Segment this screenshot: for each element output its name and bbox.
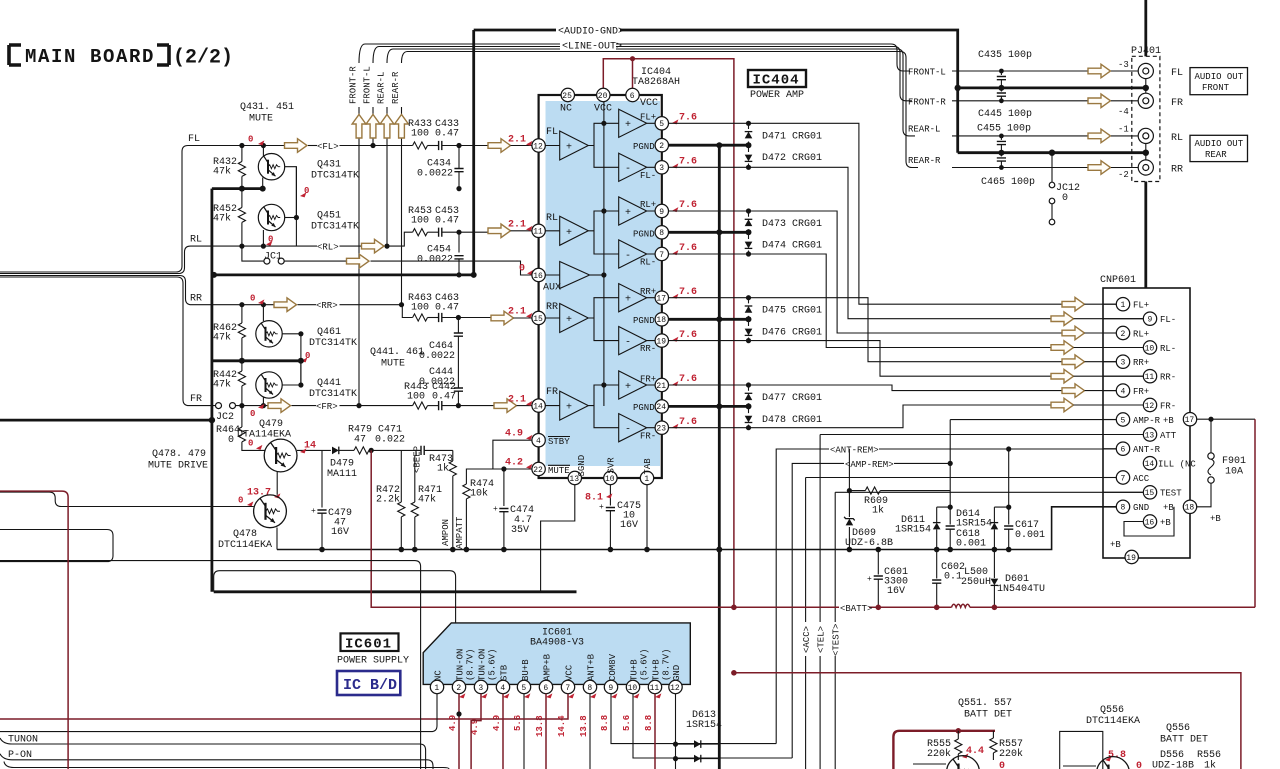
pin CNP 8 GND: [1116, 500, 1129, 513]
wire RL row: [190, 232, 413, 249]
amplifier channel RR: [539, 284, 657, 355]
node ANT-REM: [776, 446, 1116, 744]
svg-text:MA111: MA111: [327, 469, 357, 480]
svg-text:3: 3: [478, 684, 483, 693]
diode D475: [745, 295, 822, 319]
svg-text:RR: RR: [546, 302, 558, 313]
transistor Q431: [258, 146, 359, 219]
pin CNP 7 ACC: [1116, 471, 1129, 484]
transistor Q451: [258, 204, 359, 246]
svg-text:220k: 220k: [927, 748, 951, 760]
pin IC601 6: [539, 680, 552, 693]
pin IC601 5: [517, 680, 530, 693]
svg-text:ANT-R: ANT-R: [1133, 445, 1161, 455]
svg-text:Q431. 451: Q431. 451: [240, 102, 294, 113]
svg-text:5.6: 5.6: [622, 715, 632, 731]
red 0 FR: [258, 404, 264, 409]
red 0 Q441: [301, 357, 307, 362]
svg-text:6: 6: [1121, 446, 1126, 455]
svg-text:GND: GND: [672, 665, 682, 681]
ground frame thick: [0, 417, 577, 592]
node REAR-L vertical: [377, 72, 388, 247]
svg-text:7: 7: [565, 684, 570, 693]
amplifier channel RL: [539, 197, 657, 268]
svg-text:<LINE-OUT>: <LINE-OUT>: [562, 42, 622, 53]
svg-text:23: 23: [656, 425, 666, 434]
red 2.1 pin15: [526, 313, 532, 318]
svg-text:RR: RR: [190, 294, 202, 305]
svg-text:2: 2: [456, 684, 461, 693]
svg-text:15: 15: [533, 315, 543, 324]
wire pin1 TAB: [646, 485, 648, 550]
wire maroon left rail: [0, 491, 68, 769]
svg-text:4.9: 4.9: [492, 715, 502, 731]
svg-text:FRONT: FRONT: [1202, 83, 1230, 93]
svg-text:IC B/D: IC B/D: [343, 677, 397, 694]
pin CNP 4: [1116, 384, 1129, 397]
svg-text:17: 17: [1185, 416, 1195, 425]
svg-text:1: 1: [1121, 301, 1126, 310]
capacitor C471: [375, 425, 453, 456]
svg-text:+: +: [493, 505, 498, 514]
svg-text:7.6: 7.6: [679, 157, 697, 168]
svg-text:VCC: VCC: [640, 98, 658, 109]
svg-text:BU+B: BU+B: [521, 659, 531, 681]
svg-text:5: 5: [1121, 416, 1126, 425]
red 0 Q431: [300, 192, 306, 197]
wire AMP-R: [950, 420, 1116, 464]
pin 16: [532, 268, 545, 281]
resistor R471: [411, 456, 442, 550]
svg-text:TUN-ON: TUN-ON: [478, 649, 488, 681]
ground bus upper thick: [212, 178, 266, 192]
red 0 Q479: [256, 445, 262, 450]
svg-text:RL: RL: [1171, 133, 1183, 144]
svg-text:RL: RL: [190, 235, 202, 246]
svg-text:IC404: IC404: [753, 73, 800, 89]
arrow up REAR-L: [380, 115, 394, 139]
wire FL row: [188, 134, 413, 148]
svg-text:100: 100: [411, 129, 429, 140]
svg-text:7.6: 7.6: [679, 374, 697, 385]
wire LINE-OUT net / front-rear packed lines: [359, 37, 916, 168]
pin CNP 11: [1143, 370, 1156, 383]
svg-text:7.6: 7.6: [679, 287, 697, 298]
node FRONT-R vertical: [349, 66, 360, 406]
svg-text:D471 CRG01: D471 CRG01: [762, 132, 822, 143]
svg-text:14: 14: [1145, 460, 1155, 469]
svg-text:STBY: STBY: [548, 437, 570, 447]
svg-text:BA4908-V3: BA4908-V3: [530, 638, 584, 649]
wire PGND thick net: [669, 142, 752, 769]
svg-text:+: +: [625, 120, 631, 131]
jack RL: [1138, 128, 1183, 152]
svg-text:16V: 16V: [331, 527, 349, 538]
svg-text:13.7: 13.7: [247, 488, 271, 499]
pin IC601 10: [626, 680, 639, 693]
capacitor C465: [981, 153, 1035, 188]
svg-text:0.47: 0.47: [435, 216, 459, 227]
arrow FL: [285, 139, 308, 153]
node BEEP: [413, 446, 423, 473]
arrow FR: [268, 399, 291, 413]
svg-text:1SR154: 1SR154: [895, 525, 931, 536]
svg-text:FL: FL: [1171, 68, 1183, 79]
svg-text:POWER AMP: POWER AMP: [750, 90, 804, 101]
svg-text:35V: 35V: [511, 525, 529, 536]
pin CNP 10: [1143, 341, 1156, 354]
svg-text:RL-: RL-: [640, 258, 656, 268]
capacitor C434: [417, 146, 464, 192]
node AMP-REM: [792, 460, 953, 758]
svg-text:5: 5: [659, 120, 664, 129]
capacitor C435: [978, 50, 1032, 91]
svg-text:+: +: [625, 295, 631, 306]
transistor Q556: [1063, 757, 1129, 769]
arrow PJ FL: [1088, 64, 1111, 78]
red 2.1 pin11: [526, 226, 532, 231]
svg-text:0: 0: [999, 761, 1005, 769]
svg-text:6: 6: [630, 92, 635, 101]
svg-text:TUN-ON: TUN-ON: [456, 649, 466, 681]
wire +B to BATT maroon: [1254, 419, 1256, 607]
svg-text:REAR-R: REAR-R: [391, 71, 401, 104]
resistor R463: [408, 293, 439, 321]
diode D476: [745, 319, 822, 343]
svg-text:<FR>: <FR>: [316, 402, 338, 412]
svg-text:TA8268AH: TA8268AH: [632, 77, 680, 88]
svg-text:DTC114EKA: DTC114EKA: [218, 540, 272, 551]
svg-text:47k: 47k: [213, 166, 231, 178]
svg-text:2.1: 2.1: [508, 135, 526, 146]
wire RR+ to CNP3: [669, 298, 1063, 362]
resistor R479: [348, 425, 421, 455]
pin 25: [561, 88, 574, 101]
svg-text:220k: 220k: [999, 748, 1023, 760]
svg-text:RL-: RL-: [1160, 344, 1176, 354]
svg-text:CNP601: CNP601: [1100, 275, 1136, 286]
arrow FL to pin12: [488, 139, 511, 153]
pin CNP 5 AMP-R: [1116, 413, 1129, 426]
svg-text:8: 8: [1121, 504, 1126, 513]
wire Q-collector vertical: [295, 167, 297, 246]
resistor R555: [927, 731, 962, 760]
svg-text:19: 19: [656, 337, 666, 346]
pin IC601 1: [430, 680, 443, 693]
svg-text:REAR-L: REAR-L: [377, 72, 387, 104]
capacitor C618: [946, 463, 992, 552]
arrow CNP3: [1062, 355, 1085, 369]
title MAIN BOARD (2/2): [9, 45, 233, 70]
svg-text:AUDIO OUT: AUDIO OUT: [1195, 72, 1244, 82]
svg-text:(8.7V): (8.7V): [466, 649, 476, 681]
resistor R474: [463, 466, 532, 549]
svg-text:16: 16: [1145, 518, 1155, 527]
wire FR row: [190, 394, 413, 408]
pin IC601 9: [604, 680, 617, 693]
svg-text:Q478: Q478: [233, 529, 257, 540]
svg-text:DTC314TK: DTC314TK: [311, 171, 359, 182]
jumper JC2: [216, 403, 236, 423]
svg-text:DTC314TK: DTC314TK: [311, 222, 359, 233]
svg-text:7.6: 7.6: [679, 417, 697, 428]
svg-text:12: 12: [1145, 402, 1155, 411]
jack RR: [1138, 153, 1183, 176]
svg-text:NC: NC: [434, 670, 444, 681]
arrow PJ RL: [1088, 129, 1111, 143]
svg-text:24: 24: [656, 403, 666, 412]
svg-text:15: 15: [1145, 489, 1155, 498]
pin CNP 2: [1116, 326, 1129, 339]
svg-text:0.47: 0.47: [435, 303, 459, 314]
pin CNP 15 TEST: [1143, 486, 1156, 499]
svg-text:+B: +B: [1210, 514, 1221, 524]
arrow CNP4: [1062, 384, 1085, 398]
svg-text:D479: D479: [330, 459, 354, 470]
capacitor C442: [432, 382, 494, 410]
svg-text:<TEST>: <TEST>: [832, 624, 842, 656]
svg-text:PGND: PGND: [633, 403, 655, 413]
svg-text:10: 10: [605, 475, 615, 484]
red 7.6 values right pins: [672, 113, 697, 429]
svg-text:FL-: FL-: [1160, 315, 1176, 325]
pin IC601 8: [583, 680, 596, 693]
svg-text:+: +: [867, 575, 872, 584]
svg-text:0: 0: [1136, 761, 1142, 769]
red 14 Q479: [300, 448, 306, 453]
resistor R453: [408, 206, 439, 236]
svg-text:ATT: ATT: [1160, 431, 1177, 441]
svg-text:FR-: FR-: [1160, 401, 1176, 411]
svg-text:4.4: 4.4: [966, 746, 984, 757]
pin 24: [655, 400, 668, 413]
arrow CNP10: [1051, 341, 1074, 355]
svg-text:1SR154: 1SR154: [686, 720, 722, 731]
wire RL- to CNP10: [669, 254, 1052, 348]
svg-text:0.022: 0.022: [375, 435, 405, 446]
svg-text:AMP+B: AMP+B: [543, 653, 553, 681]
resistor R464: [216, 406, 265, 451]
arrow CNP9: [1051, 312, 1074, 326]
svg-text:2.1: 2.1: [508, 220, 526, 231]
pin 5: [655, 117, 668, 130]
svg-text:+B: +B: [1160, 518, 1171, 528]
arrow RR: [274, 298, 297, 312]
capacitor C453: [435, 206, 488, 253]
wire Q556 box: [1060, 731, 1103, 769]
svg-text:<BATT>: <BATT>: [840, 604, 872, 614]
node AMPON AMPATT: [441, 516, 465, 549]
svg-text:FRONT-R: FRONT-R: [349, 66, 359, 104]
svg-text:ACC: ACC: [1133, 474, 1150, 484]
pin 6: [626, 88, 639, 101]
arrow RL to pin11: [488, 224, 511, 238]
wire maroon lower rail: [731, 670, 1241, 769]
svg-text:47k: 47k: [418, 494, 436, 506]
battery detect maroon frame: [893, 728, 995, 769]
svg-text:3: 3: [659, 164, 664, 173]
ground bus RR thick: [212, 358, 304, 385]
svg-text:<AMP-REM>: <AMP-REM>: [845, 460, 894, 470]
diode D474: [745, 232, 822, 256]
svg-text:D474 CRG01: D474 CRG01: [762, 241, 822, 252]
svg-text:1: 1: [434, 684, 439, 693]
wire FRONT-L row: [908, 60, 1129, 78]
svg-text:0: 0: [228, 435, 234, 446]
svg-text:F901: F901: [1222, 456, 1246, 467]
svg-text:16V: 16V: [620, 520, 638, 531]
svg-text:RL+: RL+: [640, 200, 656, 210]
svg-text:<ANT-REM>: <ANT-REM>: [830, 446, 879, 456]
capacitor C464: [419, 318, 463, 363]
svg-text:C435 100p: C435 100p: [978, 50, 1032, 61]
svg-text:C445 100p: C445 100p: [978, 109, 1032, 120]
svg-text:5.6: 5.6: [513, 715, 523, 731]
wire FR+ to CNP4: [669, 385, 1063, 391]
arrow PJ FR: [1088, 94, 1111, 108]
svg-text:TEST: TEST: [1160, 489, 1182, 499]
svg-text:TAB: TAB: [643, 458, 653, 475]
svg-text:<RR>: <RR>: [316, 301, 338, 311]
red 4.9 pin4: [526, 435, 532, 440]
pin 12: [532, 139, 545, 152]
svg-text:47k: 47k: [213, 332, 231, 344]
capacitor C454: [417, 245, 464, 278]
svg-text:DTC314TK: DTC314TK: [309, 338, 357, 349]
svg-text:9: 9: [659, 208, 664, 217]
svg-text:0.0022: 0.0022: [417, 255, 453, 266]
wire FRONT-R row: [908, 97, 1129, 117]
pin CNP 12: [1143, 398, 1156, 411]
arrow up FRONT-L: [366, 115, 380, 139]
amplifier channel FR: [539, 371, 657, 442]
svg-text:PGND: PGND: [633, 229, 655, 239]
svg-text:REAR-R: REAR-R: [908, 156, 941, 166]
arrow up FRONT-R: [352, 115, 366, 139]
svg-text:7.6: 7.6: [679, 200, 697, 211]
red 0 RL: [266, 241, 272, 246]
svg-text:1N5404TU: 1N5404TU: [997, 584, 1045, 595]
node TEL vertical: [817, 435, 1144, 769]
resistor R433: [408, 119, 439, 149]
diode D473: [745, 208, 822, 232]
wire pin4 STBY: [493, 440, 532, 469]
svg-text:DTC314TK: DTC314TK: [309, 389, 357, 400]
svg-text:MUTE DRIVE: MUTE DRIVE: [148, 461, 208, 472]
transistor Q441: [256, 372, 357, 406]
pin IC601 7: [561, 680, 574, 693]
pin 18: [655, 313, 668, 326]
svg-text:12: 12: [533, 142, 543, 151]
connector CNP601: [1100, 275, 1190, 558]
svg-text:1: 1: [644, 475, 649, 484]
pin 14: [532, 399, 545, 412]
red 13.7: [274, 493, 280, 498]
svg-text:MAIN BOARD: MAIN BOARD: [25, 46, 155, 68]
svg-text:0.001: 0.001: [1015, 530, 1045, 541]
svg-text:D475 CRG01: D475 CRG01: [762, 306, 822, 317]
red 0 FL: [258, 140, 264, 145]
arrow RL: [362, 239, 385, 253]
svg-text:2.2k: 2.2k: [376, 494, 400, 506]
pin 17: [655, 291, 668, 304]
svg-text:14.4: 14.4: [557, 715, 567, 737]
capacitor C602: [932, 550, 965, 611]
svg-text:20: 20: [598, 92, 608, 101]
pin IC601 2: [452, 680, 465, 693]
svg-text:NC: NC: [560, 104, 572, 115]
svg-text:5: 5: [521, 684, 526, 693]
diode D613 pair: [673, 710, 722, 762]
svg-text:16V: 16V: [887, 586, 905, 597]
resistor R462: [213, 305, 245, 361]
svg-text:0.1: 0.1: [944, 572, 962, 583]
svg-text:VCC: VCC: [565, 664, 575, 681]
svg-text:FL+: FL+: [1133, 301, 1149, 311]
maroon VCC wire: [603, 56, 734, 607]
svg-text:FR-: FR-: [640, 431, 656, 441]
wire RL+ to CNP2: [669, 211, 1063, 333]
svg-text:0: 0: [519, 264, 525, 275]
svg-text:(8.7V): (8.7V): [662, 649, 672, 681]
arrow PJ RR: [1088, 161, 1111, 175]
svg-text:FL: FL: [188, 134, 200, 145]
svg-text:5.8: 5.8: [1108, 750, 1126, 761]
svg-text:18: 18: [656, 316, 666, 325]
pin CNP 16 +B: [1143, 515, 1156, 528]
IC601 pin names: [434, 649, 683, 681]
pin 20: [597, 88, 610, 101]
svg-text:Q551. 557: Q551. 557: [958, 698, 1012, 709]
svg-text:FL-: FL-: [640, 171, 656, 181]
svg-text:1SR154: 1SR154: [956, 519, 992, 530]
svg-text:-: -: [625, 425, 631, 436]
wire IC601 pin drops: [0, 694, 792, 769]
svg-text:TU+B: TU+B: [630, 659, 640, 681]
svg-text:PGND: PGND: [633, 142, 655, 152]
svg-text:BATT DET: BATT DET: [1160, 735, 1208, 746]
svg-text:MUTE: MUTE: [548, 466, 570, 476]
svg-text:D476 CRG01: D476 CRG01: [762, 328, 822, 339]
pin 23: [655, 421, 668, 434]
svg-text:(5.6V): (5.6V): [640, 649, 650, 681]
svg-text:7.6: 7.6: [679, 243, 697, 254]
capacitor C455: [997, 134, 1006, 156]
svg-text:FR: FR: [1171, 98, 1183, 109]
jack FL: [1138, 63, 1183, 88]
svg-text:4: 4: [500, 684, 505, 693]
red 8.1 pin10: [606, 493, 612, 498]
svg-text:+: +: [566, 143, 572, 154]
svg-text:UDZ-18B: UDZ-18B: [1152, 761, 1194, 769]
svg-text:100: 100: [411, 216, 429, 227]
pin CNP 9: [1143, 312, 1156, 325]
svg-text:19: 19: [1126, 554, 1136, 563]
svg-text:MUTE: MUTE: [381, 359, 405, 370]
wire AUDIO-GND net: [474, 27, 958, 275]
diode D477: [745, 382, 822, 406]
svg-text:FR+: FR+: [1133, 387, 1149, 397]
svg-text:+: +: [311, 507, 316, 516]
svg-text:0: 0: [248, 135, 253, 145]
svg-text:6: 6: [543, 684, 548, 693]
svg-text:2: 2: [1121, 330, 1126, 339]
resistor R452: [213, 189, 245, 247]
arrow CNP2: [1062, 326, 1085, 340]
svg-text:8.8: 8.8: [600, 715, 610, 731]
svg-text:22: 22: [533, 466, 543, 475]
pin CNP 3: [1116, 355, 1129, 368]
